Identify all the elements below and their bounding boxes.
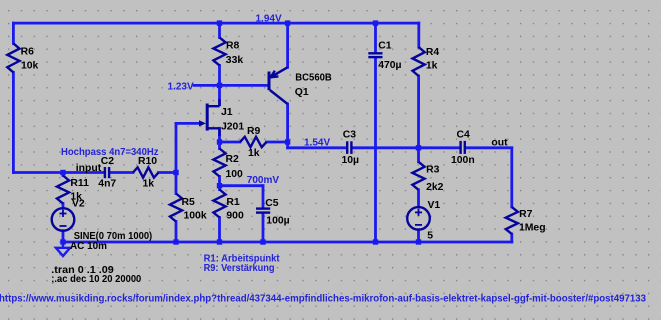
- node junction R9 right collector: [285, 139, 290, 144]
- svg-text:1.54V: 1.54V: [304, 138, 330, 149]
- svg-text:R6: R6: [21, 46, 35, 57]
- svg-text:R9: Verstärkung: R9: Verstärkung: [204, 263, 275, 274]
- wire R8 top lead: [218, 23, 221, 37]
- wire bottom rail: [63, 241, 512, 244]
- svg-text:1k: 1k: [143, 179, 155, 190]
- wire R11 top lead: [62, 173, 65, 176]
- svg-text:R8: R8: [226, 41, 240, 52]
- wire R5 upper lead: [175, 173, 178, 194]
- node junction bottom V2: [60, 239, 65, 244]
- capacitor C4 plates: [461, 141, 465, 154]
- svg-text:100n: 100n: [451, 155, 475, 166]
- svg-text:;.ac dec 10 20 20000: ;.ac dec 10 20 20000: [51, 274, 141, 285]
- V2 minus sign: [60, 225, 67, 227]
- node junction bottom C5: [260, 239, 265, 244]
- resistor R8: [213, 37, 225, 65]
- wire R5 lower lead: [175, 222, 178, 243]
- wire R4 bottom lead: [417, 76, 420, 148]
- wire R9 right lead: [267, 141, 288, 144]
- svg-text:R2: R2: [226, 154, 240, 165]
- wire R9 left lead: [220, 141, 241, 144]
- wire C5 top lead: [262, 186, 265, 208]
- JFET J1 body: [207, 99, 219, 136]
- capacitor C3 plates: [347, 141, 351, 154]
- resistor R11: [57, 176, 69, 204]
- svg-text:AC 10m: AC 10m: [70, 241, 107, 252]
- wire R2 bottom lead: [218, 177, 221, 186]
- svg-text:2k2: 2k2: [426, 182, 444, 193]
- transistor Q1 BC560B body: [269, 67, 288, 104]
- node junction top C1: [373, 20, 378, 25]
- wire V2 to ground rail: [62, 231, 65, 242]
- node junction bottom R5: [173, 239, 178, 244]
- svg-text:J1: J1: [221, 107, 233, 118]
- resistor R6: [7, 43, 19, 72]
- svg-text:100k: 100k: [184, 211, 207, 222]
- svg-text:R1: R1: [226, 197, 240, 208]
- node junction input gate column: [173, 170, 178, 175]
- svg-text:V2: V2: [72, 199, 85, 210]
- wire C1 top lead: [374, 23, 377, 52]
- svg-text:10k: 10k: [21, 60, 39, 71]
- wire Q1 collector column: [286, 104, 289, 142]
- svg-text:R4: R4: [426, 47, 440, 58]
- wire R1 top lead: [218, 186, 221, 190]
- wire input run left: [13, 171, 104, 174]
- svg-text:100: 100: [226, 169, 244, 180]
- svg-text:C2: C2: [101, 156, 115, 167]
- node junction 1.54V R4: [416, 145, 421, 150]
- ground symbol: [56, 242, 70, 256]
- svg-text:https://www.musikding.rocks/fo: https://www.musikding.rocks/forum/index.…: [0, 293, 646, 304]
- resistor R2: [213, 149, 225, 177]
- resistor R7: [506, 207, 518, 234]
- resistor R10 (horizontal): [133, 167, 159, 177]
- svg-text:700mV: 700mV: [247, 175, 280, 186]
- node junction top Q1: [285, 20, 290, 25]
- wire R8 bottom lead: [218, 65, 221, 85]
- wire gate column: [175, 123, 178, 172]
- svg-text:C5: C5: [265, 198, 279, 209]
- V1 minus sign: [415, 224, 422, 226]
- node junction 1.23V: [217, 83, 222, 88]
- wire C3 to R4 junction: [353, 146, 419, 149]
- resistor R1: [213, 190, 225, 218]
- wire R3 to V1: [417, 190, 420, 207]
- capacitor C1 plates: [368, 53, 382, 57]
- svg-text:33k: 33k: [226, 55, 244, 66]
- svg-text:R11: R11: [70, 178, 89, 189]
- node junction 700mV: [217, 183, 222, 188]
- svg-text:1.23V: 1.23V: [168, 82, 194, 93]
- wire R11 bottom lead: [62, 204, 65, 209]
- svg-text:10µ: 10µ: [342, 155, 360, 166]
- wire 1.54V run to C4: [419, 146, 460, 149]
- svg-text:J201: J201: [221, 122, 244, 133]
- svg-text:C4: C4: [457, 130, 471, 141]
- wire 700mV branch: [220, 184, 264, 187]
- wire V1 bottom lead: [417, 230, 420, 242]
- svg-text:1Meg: 1Meg: [519, 223, 546, 234]
- svg-text:R9: R9: [247, 126, 261, 137]
- capacitor C5 plates: [256, 209, 270, 213]
- wire 1.54V jog: [286, 142, 289, 148]
- wire 1.54V run to C3: [288, 146, 347, 149]
- JFET J1 gate arrow: [199, 120, 206, 126]
- svg-text:out: out: [491, 137, 508, 148]
- wire J1 drain lead: [218, 85, 221, 104]
- svg-text:input: input: [76, 163, 102, 174]
- svg-text:900: 900: [226, 211, 244, 222]
- node junction bottom C1: [373, 239, 378, 244]
- svg-text:1.94V: 1.94V: [256, 13, 282, 24]
- V1 plus sign: [415, 209, 422, 216]
- wire R4 top lead: [417, 23, 420, 47]
- wire C4 to out corner: [466, 146, 512, 149]
- svg-text:C1: C1: [378, 40, 392, 51]
- svg-text:4n7: 4n7: [98, 178, 116, 189]
- svg-text:R3: R3: [426, 165, 440, 176]
- svg-text:BC560B: BC560B: [295, 72, 332, 83]
- wire top rail: [13, 22, 418, 25]
- V2 plus sign: [60, 210, 67, 217]
- wire R1 bottom lead: [218, 218, 221, 243]
- wire left rail upper: [12, 23, 15, 43]
- node junction bottom V1: [416, 239, 421, 244]
- node junction R9 left: [217, 139, 222, 144]
- svg-text:100µ: 100µ: [266, 216, 289, 227]
- voltage source V1 circle: [407, 207, 430, 230]
- wire Q1 emitter column: [286, 23, 289, 67]
- node junction top R8: [217, 20, 222, 25]
- wire input run right: [159, 171, 177, 174]
- svg-text:470µ: 470µ: [378, 60, 401, 71]
- capacitor C2 plates: [105, 167, 109, 178]
- svg-text:R7: R7: [519, 209, 533, 220]
- wire C5 bottom lead: [262, 214, 265, 242]
- wire C1 bottom lead: [374, 58, 377, 242]
- svg-text:C3: C3: [343, 130, 357, 141]
- svg-text:1k: 1k: [426, 60, 438, 71]
- wire 1.23V node horizontal: [194, 84, 269, 87]
- svg-text:R10: R10: [138, 156, 157, 167]
- wire R7 bottom lead: [510, 234, 513, 242]
- svg-text:Q1: Q1: [295, 87, 309, 98]
- svg-text:R5: R5: [182, 197, 196, 208]
- voltage source V2 circle: [52, 208, 75, 231]
- wire gate horizontal: [176, 122, 201, 125]
- svg-text:V1: V1: [428, 200, 441, 211]
- resistor R4: [413, 47, 425, 76]
- svg-text:5: 5: [427, 231, 433, 242]
- resistor R3: [412, 162, 424, 190]
- resistor R5: [170, 194, 182, 222]
- wire R3 top lead: [417, 148, 420, 162]
- wire input run mid: [110, 171, 133, 174]
- wire out column: [510, 148, 513, 207]
- wire R2 top lead: [218, 142, 221, 149]
- wire J1 source lead: [218, 128, 221, 142]
- resistor R9 (horizontal): [240, 137, 267, 147]
- node junction bottom R1: [217, 239, 222, 244]
- node junction input R11: [60, 170, 65, 175]
- wire left rail lower: [12, 72, 15, 172]
- svg-text:1k: 1k: [248, 148, 260, 159]
